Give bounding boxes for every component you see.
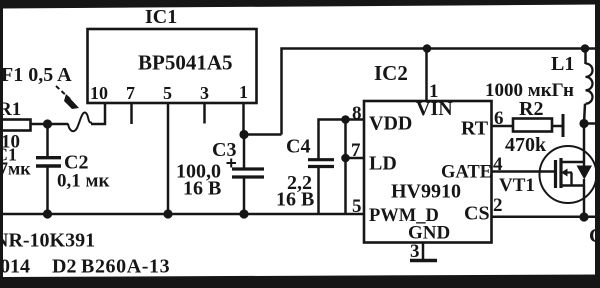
svg-text:2: 2 <box>493 195 503 216</box>
svg-text:HV9910: HV9910 <box>391 181 461 203</box>
svg-text:16 В: 16 В <box>183 178 221 200</box>
svg-text:CS: CS <box>464 203 490 225</box>
svg-text:1: 1 <box>239 82 248 102</box>
svg-text:B260A-13: B260A-13 <box>81 256 170 278</box>
svg-text:4: 4 <box>493 154 503 175</box>
svg-text:IC2: IC2 <box>374 61 408 85</box>
svg-text:VDD: VDD <box>369 113 412 135</box>
svg-text:NR-10K391: NR-10K391 <box>0 230 95 252</box>
svg-text:VT1: VT1 <box>499 175 535 196</box>
svg-text:8: 8 <box>352 103 362 124</box>
svg-text:470k: 470k <box>505 134 547 156</box>
svg-text:GATE: GATE <box>441 163 492 183</box>
svg-text:7: 7 <box>351 140 361 161</box>
svg-text:5: 5 <box>163 83 172 103</box>
svg-text:3: 3 <box>200 83 209 103</box>
svg-text:F1 0,5 A: F1 0,5 A <box>1 64 72 86</box>
svg-text:10: 10 <box>90 83 108 103</box>
svg-text:RT: RT <box>461 118 489 140</box>
svg-text:C4: C4 <box>286 136 310 158</box>
svg-text:7мк: 7мк <box>0 159 31 179</box>
svg-text:7: 7 <box>126 83 135 103</box>
svg-text:16 В: 16 В <box>276 189 314 211</box>
svg-text:C3: C3 <box>212 139 236 161</box>
svg-text:L1: L1 <box>551 53 574 75</box>
svg-text:IC1: IC1 <box>145 6 177 28</box>
svg-text:014: 014 <box>0 256 30 278</box>
svg-text:1: 1 <box>429 81 439 102</box>
svg-text:3: 3 <box>410 241 420 262</box>
svg-text:R2: R2 <box>519 98 543 120</box>
svg-text:0,1 мк: 0,1 мк <box>57 171 109 192</box>
svg-text:5: 5 <box>352 196 362 217</box>
svg-text:R1: R1 <box>0 99 21 120</box>
svg-text:D2: D2 <box>52 256 76 278</box>
svg-text:BP5041A5: BP5041A5 <box>138 51 233 75</box>
svg-text:6: 6 <box>494 108 504 129</box>
svg-text:LD: LD <box>369 153 397 175</box>
